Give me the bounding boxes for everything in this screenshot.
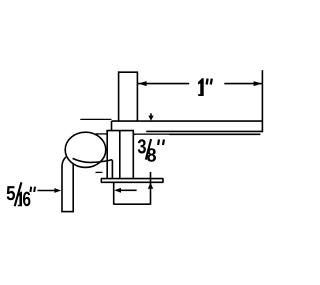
riser tube left wall with bend: [62, 157, 66, 212]
5/16 dim line right: [121, 189, 137, 191]
washer edge left of nut: [96, 171, 103, 173]
flange left cap: [100, 179, 102, 183]
nut top edge: [106, 130, 134, 132]
ball inner bottom arc: [73, 158, 113, 162]
ball outer ellipse: [65, 132, 106, 167]
lower tube right wall and 3/8 dim line: [150, 172, 152, 205]
step piece left wall: [111, 121, 113, 131]
arrow right (1 inch): [254, 81, 263, 86]
bracket top line over ball: [80, 118, 111, 120]
neck right edge down to flange: [111, 160, 113, 178]
arrow down at tube top wall: [148, 116, 153, 121]
top tube right wall: [136, 72, 138, 121]
riser tube right wall: [73, 158, 75, 212]
fraction slash 3/8: [146, 139, 151, 160]
nut left wall: [106, 131, 108, 179]
arrow left (1 inch): [138, 81, 147, 86]
lower tube cap: [114, 203, 151, 205]
lower tube left wall: [113, 182, 115, 204]
flange right cap: [162, 179, 164, 183]
label box 1 inch: [189, 68, 224, 104]
label text 16: [18, 192, 22, 207]
top tube cap: [118, 71, 138, 73]
dim line 1 inch: [138, 83, 262, 85]
arrow left-pointing at lower tube: [114, 188, 121, 193]
3/8 dim upper tail: [150, 113, 152, 116]
label double prime ticks (3/8): [157, 140, 160, 146]
right tube top wall: [112, 120, 263, 122]
label double prime ticks (5/16): [29, 187, 32, 192]
arrow up at flange bottom: [148, 183, 153, 189]
arrow right-pointing at riser: [54, 188, 61, 193]
extension line right: [261, 70, 263, 132]
label text 8: [147, 148, 156, 162]
nut inner line: [119, 131, 121, 179]
label box 5/16: [4, 174, 38, 211]
label box 3/8: [135, 135, 169, 172]
right tube outer bottom wall: [133, 133, 260, 135]
fraction slash 5/16: [15, 182, 22, 206]
riser tube end cap: [61, 211, 74, 213]
flange bottom line: [101, 181, 164, 183]
washer edge upper left of nut: [96, 133, 107, 135]
label text 3: [138, 139, 146, 153]
nut right wall: [132, 131, 134, 179]
right tube inner bottom wall: [146, 130, 262, 132]
flange top line: [101, 178, 164, 180]
label text 5: [7, 186, 16, 200]
5/16 dim line left: [38, 190, 56, 192]
label double prime ticks (1): [207, 79, 208, 85]
label text 1: [198, 78, 204, 96]
top tube left wall: [118, 71, 120, 121]
